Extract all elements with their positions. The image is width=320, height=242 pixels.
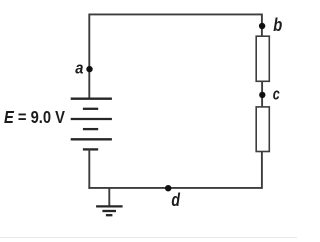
wire bottom [88, 187, 262, 189]
wire left upper (battery top to top rail) [88, 14, 90, 99]
resistor R1 [256, 36, 269, 81]
node c [259, 92, 265, 98]
svg-text:E = 9.0 V: E = 9.0 V [4, 107, 65, 127]
node a [86, 66, 92, 72]
battery E (3 cells) [71, 99, 112, 150]
ground [96, 206, 123, 215]
node d [165, 185, 171, 191]
wire left lower (battery bottom to bottom rail) [88, 149, 90, 188]
svg-text:a: a [75, 59, 83, 78]
svg-text:c: c [273, 85, 280, 104]
wire top [89, 13, 262, 15]
wire right middle (R1 to R2) [261, 81, 263, 107]
svg-text:b: b [273, 14, 282, 35]
resistor R2 [256, 107, 269, 152]
svg-text:d: d [171, 189, 180, 210]
wire right lower (R2 to bottom rail) [261, 152, 263, 189]
wire right upper (top rail to R1) [261, 14, 263, 37]
wire ground stub [108, 188, 110, 207]
node b [259, 23, 265, 29]
